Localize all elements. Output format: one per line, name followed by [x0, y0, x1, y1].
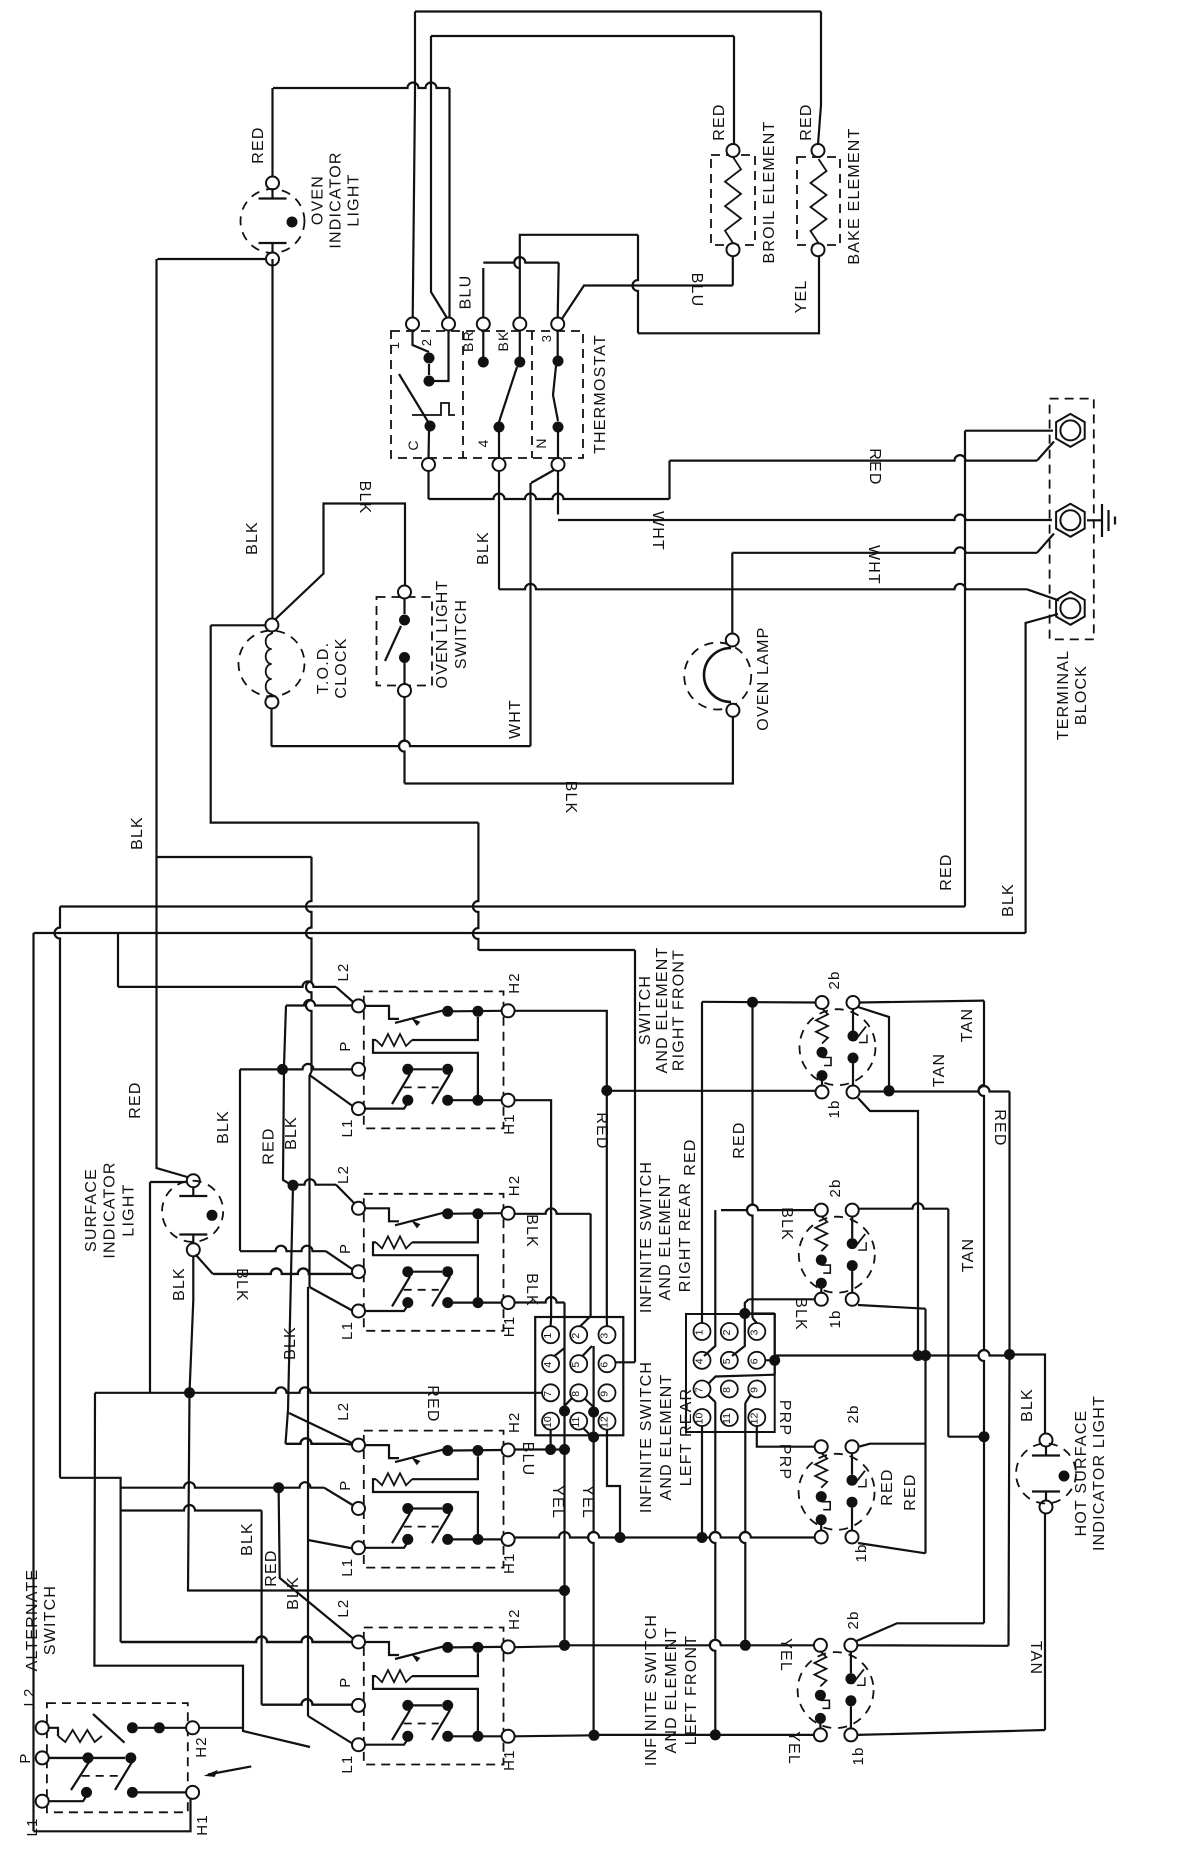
svg-text:INDICATOR: INDICATOR: [328, 151, 345, 248]
svg-text:BLK: BLK: [129, 816, 146, 850]
svg-text:BLK: BLK: [1019, 1388, 1036, 1422]
svg-text:4: 4: [475, 439, 491, 448]
svg-text:1b: 1b: [850, 1746, 867, 1765]
svg-text:H1: H1: [501, 1552, 518, 1574]
svg-text:10: 10: [694, 1413, 706, 1425]
svg-text:RED: RED: [991, 1109, 1008, 1146]
svg-text:9: 9: [748, 1387, 760, 1393]
svg-text:RED: RED: [682, 1138, 699, 1175]
svg-text:2: 2: [721, 1329, 733, 1335]
svg-text:1b: 1b: [853, 1543, 870, 1562]
svg-text:H1: H1: [194, 1814, 211, 1836]
svg-text:L2: L2: [335, 1165, 352, 1184]
svg-text:RED: RED: [424, 1385, 441, 1422]
svg-text:RED: RED: [250, 126, 267, 163]
svg-text:2b: 2b: [827, 1178, 844, 1197]
svg-text:INFINITE SWITCH: INFINITE SWITCH: [638, 1161, 655, 1313]
svg-text:RIGHT REAR: RIGHT REAR: [677, 1182, 694, 1292]
svg-text:H1: H1: [501, 1316, 518, 1338]
svg-text:BLU: BLU: [519, 1442, 536, 1477]
svg-text:OVEN LAMP: OVEN LAMP: [755, 627, 772, 731]
svg-text:LIGHT: LIGHT: [345, 173, 362, 226]
svg-text:ALTERNATE: ALTERNATE: [24, 1569, 41, 1672]
svg-text:SWITCH: SWITCH: [637, 975, 654, 1045]
svg-text:BLK: BLK: [283, 1116, 300, 1150]
svg-text:TAN: TAN: [931, 1053, 948, 1087]
svg-text:RED: RED: [593, 1112, 610, 1149]
svg-text:YEL: YEL: [793, 280, 810, 314]
svg-text:P: P: [337, 1040, 354, 1051]
svg-text:8: 8: [721, 1387, 733, 1393]
svg-text:H2: H2: [506, 1175, 523, 1197]
svg-text:H2: H2: [506, 972, 523, 994]
svg-text:BLOCK: BLOCK: [1073, 665, 1090, 725]
svg-text:BLK: BLK: [171, 1267, 188, 1301]
svg-text:TAN: TAN: [1027, 1641, 1044, 1675]
svg-text:H2: H2: [506, 1411, 523, 1433]
svg-text:INFINITE SWITCH: INFINITE SWITCH: [638, 1361, 655, 1513]
svg-text:BROIL ELEMENT: BROIL ELEMENT: [761, 120, 778, 263]
svg-text:BLK: BLK: [215, 1110, 232, 1144]
svg-text:YEL: YEL: [579, 1485, 596, 1519]
svg-text:TERMINAL: TERMINAL: [1055, 650, 1072, 741]
svg-text:AND ELEMENT: AND ELEMENT: [663, 1627, 680, 1754]
svg-text:WHT: WHT: [865, 545, 882, 585]
svg-text:L1: L1: [339, 1755, 356, 1774]
svg-text:RED: RED: [261, 1127, 278, 1164]
svg-text:WHT: WHT: [649, 511, 666, 551]
svg-text:4: 4: [542, 1362, 554, 1368]
svg-text:BR: BR: [460, 330, 476, 352]
svg-text:2: 2: [419, 338, 434, 346]
svg-text:3: 3: [539, 334, 554, 342]
svg-text:YEL: YEL: [777, 1638, 794, 1672]
svg-text:INDICATOR LIGHT: INDICATOR LIGHT: [1091, 1395, 1108, 1551]
svg-text:T.O.D.: T.O.D.: [315, 642, 332, 695]
svg-text:WHT: WHT: [507, 699, 524, 739]
svg-text:L1: L1: [339, 1558, 356, 1577]
svg-text:1: 1: [387, 341, 402, 349]
svg-text:RED: RED: [866, 448, 883, 485]
svg-text:RIGHT FRONT: RIGHT FRONT: [671, 949, 688, 1071]
svg-text:SWITCH: SWITCH: [42, 1585, 59, 1655]
svg-text:4: 4: [694, 1358, 706, 1364]
svg-text:RED: RED: [731, 1121, 748, 1158]
svg-text:12: 12: [599, 1416, 611, 1428]
svg-text:L2: L2: [21, 1687, 38, 1706]
svg-text:YEL: YEL: [549, 1485, 566, 1519]
svg-text:AND ELEMENT: AND ELEMENT: [657, 1174, 674, 1301]
svg-text:PRP: PRP: [776, 1444, 793, 1481]
svg-text:8: 8: [570, 1391, 582, 1397]
svg-text:2b: 2b: [826, 970, 843, 989]
svg-text:2b: 2b: [845, 1404, 862, 1423]
svg-text:BLK: BLK: [1000, 883, 1017, 917]
svg-text:C: C: [405, 439, 421, 450]
svg-text:L1: L1: [339, 1321, 356, 1340]
svg-text:BLK: BLK: [778, 1207, 795, 1241]
svg-text:3: 3: [748, 1329, 760, 1335]
svg-text:YEL: YEL: [785, 1731, 802, 1765]
svg-text:RED: RED: [879, 1468, 896, 1505]
svg-text:5: 5: [721, 1358, 733, 1364]
svg-text:H2: H2: [193, 1736, 210, 1758]
svg-text:RED: RED: [127, 1081, 144, 1118]
svg-text:AND ELEMENT: AND ELEMENT: [654, 947, 671, 1074]
svg-text:1: 1: [694, 1329, 706, 1335]
svg-text:11: 11: [721, 1413, 733, 1424]
svg-text:7: 7: [694, 1387, 706, 1393]
svg-text:INDICATOR: INDICATOR: [102, 1161, 119, 1258]
svg-text:L2: L2: [335, 1599, 352, 1618]
svg-text:BAKE ELEMENT: BAKE ELEMENT: [846, 127, 863, 264]
svg-text:L2: L2: [335, 1402, 352, 1421]
svg-text:BLK: BLK: [475, 531, 492, 565]
svg-text:RED: RED: [798, 103, 815, 140]
svg-text:BLK: BLK: [523, 1273, 540, 1307]
svg-text:H2: H2: [506, 1608, 523, 1630]
svg-text:1b: 1b: [826, 1099, 843, 1118]
svg-text:TAN: TAN: [960, 1238, 977, 1272]
svg-text:RED: RED: [902, 1473, 919, 1510]
svg-text:6: 6: [748, 1358, 760, 1364]
svg-text:11: 11: [570, 1416, 582, 1427]
svg-text:OVEN LIGHT: OVEN LIGHT: [434, 580, 451, 689]
svg-text:P: P: [17, 1752, 34, 1763]
svg-text:RED: RED: [711, 103, 728, 140]
svg-text:TAN: TAN: [959, 1008, 976, 1042]
svg-text:H1: H1: [501, 1749, 518, 1771]
svg-text:LEFT REAR: LEFT REAR: [678, 1388, 695, 1487]
svg-text:SURFACE: SURFACE: [83, 1168, 100, 1252]
svg-text:12: 12: [748, 1413, 760, 1425]
svg-text:P: P: [337, 1243, 354, 1254]
svg-text:H1: H1: [501, 1113, 518, 1135]
svg-text:BK: BK: [495, 330, 511, 351]
svg-text:BLK: BLK: [792, 1297, 809, 1331]
svg-text:HOT SURFACE: HOT SURFACE: [1073, 1410, 1090, 1537]
svg-text:5: 5: [570, 1362, 582, 1368]
svg-text:L1: L1: [24, 1817, 41, 1836]
svg-text:P: P: [337, 1480, 354, 1491]
svg-text:7: 7: [542, 1391, 554, 1397]
svg-text:2b: 2b: [845, 1610, 862, 1629]
svg-text:2: 2: [570, 1333, 582, 1339]
svg-text:CLOCK: CLOCK: [333, 637, 350, 698]
svg-text:AND ELEMENT: AND ELEMENT: [658, 1374, 675, 1501]
svg-text:9: 9: [599, 1391, 611, 1397]
svg-text:BLK: BLK: [233, 1268, 250, 1302]
svg-text:RED: RED: [263, 1549, 280, 1586]
svg-text:PRP: PRP: [776, 1400, 793, 1437]
svg-text:INFINITE SWITCH: INFINITE SWITCH: [643, 1614, 660, 1766]
svg-text:1b: 1b: [827, 1309, 844, 1328]
svg-text:P: P: [337, 1676, 354, 1687]
svg-text:SWITCH: SWITCH: [453, 599, 470, 669]
svg-text:OVEN: OVEN: [310, 175, 327, 225]
svg-text:BLU: BLU: [688, 273, 705, 308]
svg-text:L1: L1: [339, 1118, 356, 1137]
svg-text:1: 1: [542, 1333, 554, 1339]
svg-text:BLK: BLK: [356, 481, 373, 515]
svg-text:10: 10: [542, 1416, 554, 1428]
svg-text:LEFT FRONT: LEFT FRONT: [683, 1635, 700, 1745]
svg-text:BLK: BLK: [244, 521, 261, 555]
svg-text:L2: L2: [335, 962, 352, 981]
svg-text:BLK: BLK: [239, 1522, 256, 1556]
svg-text:BLK: BLK: [562, 781, 579, 815]
svg-text:3: 3: [599, 1333, 611, 1339]
svg-text:RED: RED: [938, 853, 955, 890]
svg-text:6: 6: [599, 1362, 611, 1368]
svg-text:N: N: [533, 437, 549, 448]
svg-text:THERMOSTAT: THERMOSTAT: [592, 334, 609, 454]
svg-text:BLK: BLK: [523, 1214, 540, 1248]
svg-text:LIGHT: LIGHT: [120, 1183, 137, 1236]
svg-text:BLU: BLU: [458, 275, 475, 310]
